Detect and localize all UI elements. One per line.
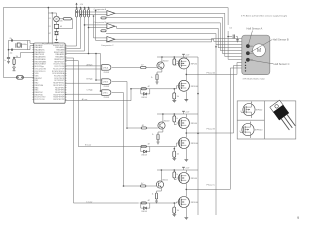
- svg-text:Hall Sensor B: Hall Sensor B: [273, 38, 289, 42]
- svg-text:IRF9540: IRF9540: [191, 86, 198, 88]
- svg-text:1N4148: 1N4148: [141, 211, 147, 213]
- svg-text:U7B:B: U7B:B: [103, 82, 109, 84]
- svg-text:1N4148: 1N4148: [141, 97, 147, 99]
- svg-text:10k: 10k: [230, 28, 233, 30]
- svg-text:1k: 1k: [176, 118, 178, 120]
- svg-text:1k: 1k: [152, 194, 154, 196]
- svg-text:M: M: [257, 48, 261, 54]
- svg-text:4k7: 4k7: [142, 125, 145, 127]
- svg-text:PIC16F877A: PIC16F877A: [42, 43, 54, 46]
- svg-text:1k: 1k: [176, 61, 178, 63]
- svg-text:1N4148: 1N4148: [141, 155, 147, 157]
- svg-text:Comparator C: Comparator C: [101, 44, 114, 47]
- svg-text:4k7: 4k7: [148, 200, 151, 202]
- svg-text:Hall Sensor A: Hall Sensor A: [247, 27, 263, 31]
- svg-text:4k7: 4k7: [141, 183, 144, 185]
- svg-text:F1: F1: [49, 26, 51, 28]
- svg-text:3 Ph BLDC (all hall effect sen: 3 Ph BLDC (all hall effect sensors suppl…: [241, 14, 287, 17]
- svg-text:2N2222: 2N2222: [164, 120, 170, 122]
- svg-text:S: S: [250, 137, 251, 139]
- svg-text:2N2222: 2N2222: [162, 179, 168, 181]
- svg-text:4k7: 4k7: [141, 65, 144, 67]
- svg-text:22p: 22p: [10, 38, 13, 40]
- svg-text:IRF9540: IRF9540: [191, 143, 198, 145]
- svg-text:IRF540: IRF540: [256, 110, 262, 112]
- svg-text:Phase B: Phase B: [207, 129, 216, 131]
- svg-text:B High: B High: [87, 79, 93, 81]
- svg-text:U7B:A: U7B:A: [103, 67, 109, 70]
- svg-text:Comparator B: Comparator B: [94, 21, 107, 24]
- svg-text:10k: 10k: [177, 96, 180, 98]
- svg-text:1k: 1k: [151, 77, 153, 79]
- svg-text:4MHz: 4MHz: [22, 44, 27, 46]
- svg-text:74LS08: 74LS08: [104, 86, 110, 88]
- svg-text:Phase A: Phase A: [207, 71, 216, 74]
- svg-text:RD7/PSP7/P: RD7/PSP7/P: [53, 99, 65, 101]
- svg-text:C High: C High: [87, 90, 93, 92]
- svg-text:74LS08: 74LS08: [104, 97, 110, 99]
- svg-text:10k: 10k: [177, 210, 180, 212]
- svg-text:U7B:C: U7B:C: [103, 93, 109, 95]
- svg-text:IRF540: IRF540: [191, 178, 197, 180]
- svg-text:IRF540: IRF540: [191, 123, 197, 125]
- svg-text:10k: 10k: [177, 154, 180, 156]
- svg-text:A Low: A Low: [82, 98, 88, 101]
- svg-text:IRF9540: IRF9540: [255, 130, 262, 132]
- svg-text:IRF9540: IRF9540: [191, 202, 198, 204]
- svg-text:A High: A High: [87, 63, 93, 66]
- svg-text:1k: 1k: [176, 174, 178, 176]
- svg-text:74LS08: 74LS08: [104, 72, 110, 74]
- svg-text:1u: 1u: [4, 60, 6, 62]
- svg-text:2N2222: 2N2222: [163, 60, 169, 62]
- svg-text:22p: 22p: [10, 52, 13, 54]
- svg-text:D1: D1: [49, 18, 51, 20]
- svg-text:10k: 10k: [16, 56, 19, 58]
- svg-text:3 Ph BLDC BLDC motor: 3 Ph BLDC BLDC motor: [243, 77, 266, 80]
- svg-text:IRF540: IRF540: [191, 63, 197, 65]
- svg-text:B Low: B Low: [85, 145, 91, 147]
- svg-text:1k: 1k: [152, 134, 154, 136]
- svg-text:Phase C: Phase C: [207, 185, 216, 187]
- svg-text:RC1/T1OSI: RC1/T1OSI: [35, 99, 45, 101]
- svg-text:S: S: [251, 117, 252, 119]
- svg-text:4k7: 4k7: [148, 86, 151, 88]
- svg-text:BT: BT: [49, 33, 51, 35]
- svg-text:C Low: C Low: [86, 201, 93, 203]
- svg-text:4k7: 4k7: [148, 144, 151, 146]
- svg-text:Hall Sensor C: Hall Sensor C: [274, 62, 290, 66]
